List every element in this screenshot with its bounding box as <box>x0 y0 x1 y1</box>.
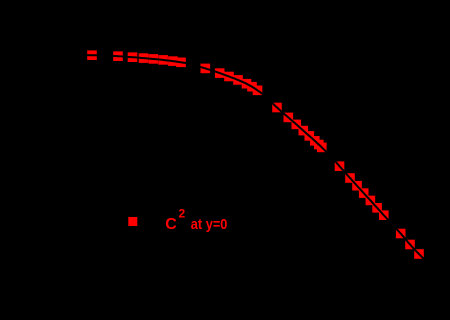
svg-text:C: C <box>165 216 177 233</box>
svg-text:2: 2 <box>179 207 186 221</box>
svg-text:at y=0: at y=0 <box>191 216 228 233</box>
